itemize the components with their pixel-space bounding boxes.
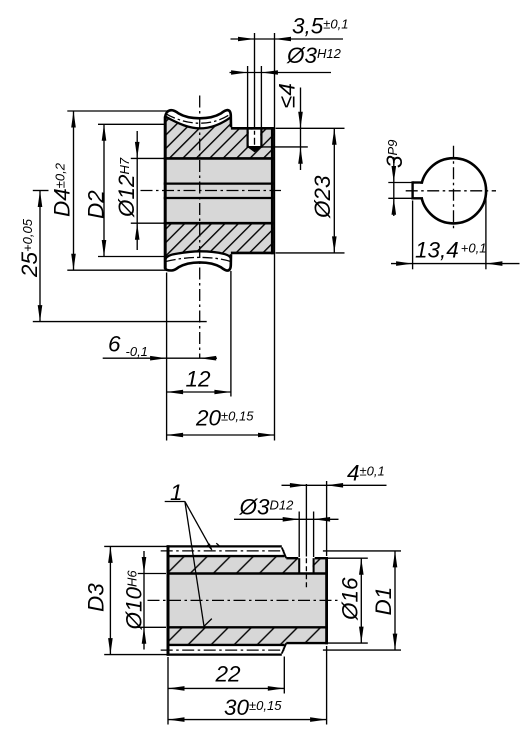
hub face extension up bbox=[326, 481, 328, 556]
svg-text:22: 22 bbox=[215, 662, 242, 687]
dimension 20 +-0,15 bbox=[167, 434, 275, 436]
hatch upper section bbox=[167, 556, 328, 573]
root line bottom bbox=[167, 644, 285, 646]
pitch line bottom (dash-dot) bbox=[161, 649, 285, 651]
hub bottom extension right bbox=[328, 642, 368, 644]
svg-text:D3: D3 bbox=[84, 583, 109, 612]
keyway top line bbox=[164, 183, 274, 185]
root arc top bbox=[166, 117, 231, 128]
centerline bbox=[148, 599, 339, 601]
horizontal centerline bbox=[406, 190, 496, 192]
worm upper tooth band (white) bbox=[167, 545, 283, 556]
dimension 30 +-0,15 bbox=[168, 719, 327, 721]
left face bbox=[164, 117, 167, 269]
radial hole left wall bbox=[298, 558, 300, 573]
keyway top line bbox=[413, 181, 423, 183]
keyway bottom line bbox=[164, 197, 274, 199]
root line top bbox=[167, 555, 285, 557]
leader arrowhead bbox=[207, 543, 212, 550]
outer profile top (throat arc with tooth tips) bbox=[165, 110, 231, 127]
worm wheel lower tooth band (white) bbox=[165, 251, 231, 270]
hub top extension right bbox=[328, 557, 368, 559]
root arc bottom bbox=[166, 251, 231, 258]
pitch arc bottom (dash-dot) bbox=[166, 257, 231, 261]
tooth step extension line down bbox=[230, 271, 232, 397]
vertical centerline bbox=[453, 146, 455, 229]
dimension D1 bbox=[394, 551, 396, 650]
hub bottom face bbox=[231, 252, 274, 255]
dimension O23 bbox=[333, 128, 335, 253]
outer profile bottom bbox=[165, 254, 231, 270]
tip line bottom extension left bbox=[104, 654, 166, 656]
hole bottom extension line bbox=[263, 146, 308, 148]
keyway left wall bbox=[411, 181, 413, 199]
leader stub upper bbox=[216, 543, 219, 546]
svg-text:Ø23: Ø23 bbox=[310, 175, 335, 219]
set screw hole bottom bbox=[247, 146, 263, 148]
hole wall extension lines bbox=[247, 66, 249, 128]
tip line bottom bbox=[167, 653, 282, 655]
bore bottom line bbox=[164, 222, 274, 225]
dimension 3,5 +-0,1 bbox=[231, 38, 344, 40]
dimension 25 +0,05 bbox=[39, 191, 41, 322]
horizontal centerline bbox=[141, 190, 282, 192]
dimension 3 P9 keyway width bbox=[393, 157, 395, 216]
tip line top bbox=[167, 545, 282, 547]
bore circle bbox=[421, 158, 486, 223]
dimension 13,4 +0,1 bbox=[391, 263, 520, 265]
hatch lower section bbox=[165, 223, 274, 259]
svg-text:D1: D1 bbox=[371, 587, 396, 616]
pitch line top (dash-dot) bbox=[161, 550, 285, 552]
svg-text:D2: D2 bbox=[84, 190, 109, 219]
dimension O16 bbox=[360, 558, 362, 643]
pitch bottom extension right bbox=[323, 649, 401, 651]
chamfer top right bbox=[282, 548, 287, 559]
set screw hole left wall bbox=[247, 128, 249, 147]
dimension 12 bbox=[167, 391, 231, 393]
svg-text:Ø16: Ø16 bbox=[338, 577, 363, 621]
hub bottom surface bbox=[286, 642, 328, 644]
keyway opening erase bbox=[419, 184, 425, 198]
leader line to lower tooth bbox=[185, 502, 204, 627]
hub top face bbox=[231, 127, 274, 130]
dimension <=4 depth bbox=[300, 88, 302, 171]
worm wheel body fill bbox=[165, 110, 274, 271]
vertical centerline bbox=[199, 96, 201, 359]
label underline bbox=[165, 501, 185, 503]
left face extension line down bbox=[166, 273, 168, 441]
hole center extension line bbox=[254, 33, 256, 128]
radial hole void bbox=[300, 557, 312, 573]
set screw hole void bbox=[249, 130, 261, 147]
set screw hole centerline dash bbox=[254, 131, 256, 147]
worm wheel upper tooth band (white) bbox=[165, 110, 231, 128]
dimension 4 +-0,1 bbox=[282, 484, 387, 486]
worm body fill bbox=[167, 546, 328, 654]
dimension O3 H12 bbox=[230, 72, 332, 74]
dimension 6 -0,1 bbox=[103, 357, 217, 359]
bore top line bbox=[167, 572, 328, 574]
hub right face bbox=[325, 557, 328, 644]
bore top line bbox=[164, 157, 274, 160]
tip line top extension left bbox=[104, 545, 166, 547]
hatch lower section bbox=[167, 627, 328, 645]
set screw hole drill point bbox=[247, 147, 262, 153]
leader stub lower bbox=[204, 619, 212, 627]
left face extension down bbox=[167, 657, 169, 725]
dimension O10 H6 bbox=[143, 551, 145, 650]
keyway bottom line bbox=[413, 197, 423, 199]
dimension D2 bbox=[103, 124, 105, 256]
dimension D3 bbox=[109, 546, 111, 654]
leader line to upper tooth bbox=[185, 502, 212, 550]
hole centerline solid ext bbox=[305, 484, 307, 557]
right face extension line bbox=[274, 33, 276, 441]
bore bottom line bbox=[167, 626, 328, 628]
worm lower tooth band (white) bbox=[167, 645, 283, 656]
svg-text:12: 12 bbox=[186, 367, 212, 392]
left face bbox=[167, 545, 170, 655]
pitch top extension right bbox=[323, 550, 401, 552]
dimension D4 +-0,2 bbox=[73, 111, 75, 270]
hatch upper section bbox=[165, 117, 274, 158]
radial hole right wall bbox=[313, 558, 315, 573]
hole centerline dash bbox=[305, 558, 307, 589]
dimension 22 bbox=[168, 687, 284, 689]
hub face extension down bbox=[326, 646, 328, 725]
right face bbox=[271, 127, 274, 254]
chamfer bottom right bbox=[282, 643, 287, 653]
dimension O12 H7 bbox=[136, 131, 138, 250]
hole wall extension lines up bbox=[298, 512, 300, 558]
set screw hole right wall bbox=[260, 128, 262, 147]
svg-text:≤4: ≤4 bbox=[275, 83, 300, 108]
pitch arc top (dash-dot) bbox=[166, 114, 231, 123]
hub top surface bbox=[286, 557, 298, 559]
dimension O3 D12 bbox=[234, 518, 339, 520]
gear right face extension down bbox=[283, 657, 285, 694]
